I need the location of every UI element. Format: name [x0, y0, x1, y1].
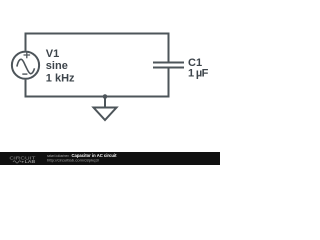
svg-text:V1: V1	[46, 48, 59, 60]
CircuitLab logo: sine squiggle	[13, 161, 21, 163]
C1 bottom plate	[153, 67, 184, 69]
svg-text:sine: sine	[46, 60, 68, 72]
C1 top plate	[153, 62, 184, 64]
CircuitLab logo: arrow	[22, 161, 24, 163]
V1 minus polarity mark	[22, 73, 27, 75]
wire: V1 - terminal down, across bottom (ground net), up to C1 bottom plate	[26, 68, 169, 96]
V1 body circle	[12, 52, 39, 79]
footer bar	[0, 152, 220, 165]
wire: V1 + terminal up, across top, down to C1 top plate	[26, 34, 169, 62]
svg-text:LAB: LAB	[25, 159, 36, 164]
capacitor C1	[153, 63, 184, 68]
ground triangle symbol	[94, 108, 117, 121]
svg-text:1µF: 1µF	[188, 67, 209, 79]
voltage source V1	[12, 52, 39, 79]
svg-text:http://circuitlab.com/c8pkq3/: http://circuitlab.com/c8pkq3/	[47, 157, 100, 162]
V1 sine-wave glyph	[17, 59, 35, 73]
svg-text:1 kHz: 1 kHz	[46, 73, 75, 85]
ground stub wire	[104, 97, 106, 108]
V1 plus polarity mark	[24, 52, 31, 58]
junction: ground node on bottom wire	[103, 94, 108, 99]
ground	[94, 97, 117, 121]
